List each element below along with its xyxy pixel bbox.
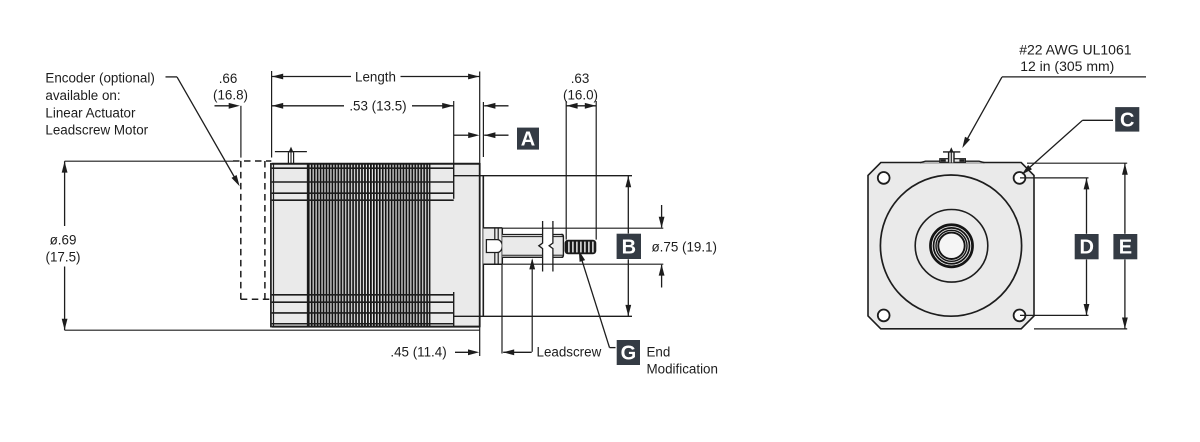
break lines [539, 221, 543, 272]
encoder leader line [166, 76, 178, 78]
body top edge [272, 163, 480, 165]
dim .45 (11.4) [479, 328, 481, 357]
svg-text:Leadscrew Motor: Leadscrew Motor [45, 123, 148, 138]
leadscrew label leader [531, 260, 533, 352]
svg-text:G: G [621, 343, 637, 365]
svg-text:Linear Actuator: Linear Actuator [45, 105, 136, 120]
wire terminal front view [940, 159, 966, 163]
svg-text:Length: Length [355, 69, 396, 84]
flag C leader [1083, 119, 1114, 121]
dim .53 (13.5) [272, 105, 344, 107]
flag G [617, 340, 640, 365]
boss circle [915, 210, 988, 283]
lamination fins [307, 164, 430, 327]
body horizontal lines top [272, 167, 454, 169]
svg-text:(16.8): (16.8) [213, 88, 248, 103]
svg-text:ø.69: ø.69 [50, 232, 77, 247]
svg-text:End: End [647, 344, 671, 359]
dim B vertical [627, 176, 629, 234]
dim E (flange size) [1027, 162, 1127, 164]
svg-text:B: B [622, 236, 636, 258]
boss slot (white notch) [486, 240, 502, 253]
dim Length [271, 71, 273, 158]
svg-text:.63: .63 [571, 71, 590, 86]
svg-text:12 in (305 mm): 12 in (305 mm) [1020, 58, 1114, 74]
motor body side view [272, 164, 480, 327]
svg-text:C: C [1120, 109, 1134, 131]
wire terminal on side view [275, 151, 307, 153]
svg-text:.66: .66 [219, 71, 238, 86]
svg-text:Encoder (optional): Encoder (optional) [45, 71, 154, 86]
svg-text:ø.75 (19.1): ø.75 (19.1) [652, 239, 718, 254]
flag D [1075, 234, 1099, 259]
dim o.75 arrows [661, 205, 663, 228]
svg-text:Leadscrew: Leadscrew [537, 344, 602, 359]
front plate line [482, 176, 484, 317]
flag C [1115, 107, 1139, 132]
wire exit plateau [920, 161, 985, 163]
svg-text:available on:: available on: [45, 88, 120, 103]
bolt holes [878, 172, 890, 184]
dim A small gap [484, 105, 508, 107]
svg-text:.53 (13.5): .53 (13.5) [349, 99, 406, 114]
end modification leader to flag G [580, 255, 609, 348]
motor body circle [880, 175, 1021, 316]
dim o.69 (17.5) vertical [64, 161, 66, 226]
front view flange square [868, 163, 1034, 329]
svg-text:(16.0): (16.0) [563, 88, 598, 103]
body right edge (mounting face) [479, 163, 481, 328]
svg-text:.45 (11.4): .45 (11.4) [390, 344, 446, 359]
flag B [617, 234, 641, 259]
svg-text:E: E [1119, 237, 1132, 259]
B extension lines (flange step) [454, 175, 632, 177]
flag A [517, 128, 539, 150]
dim B / o.75 extension lines [502, 227, 663, 229]
body bottom edge [272, 326, 480, 328]
leadscrew shaft [502, 234, 542, 257]
svg-text:#22 AWG UL1061: #22 AWG UL1061 [1019, 42, 1132, 58]
encoder dashed outline [233, 160, 271, 162]
pilot boss [483, 228, 502, 265]
dim D (bolt spacing) [1020, 177, 1089, 179]
body left edge [270, 163, 272, 327]
flag E [1113, 234, 1137, 259]
body horizontal lines bottom [272, 294, 454, 296]
svg-text:A: A [521, 129, 535, 151]
shaft rings [930, 225, 972, 267]
step vertical line rear of front cap [453, 164, 455, 199]
svg-text:Modification: Modification [647, 361, 718, 376]
svg-text:(17.5): (17.5) [46, 250, 81, 265]
threaded end (end modification knurl) [565, 240, 597, 254]
svg-text:D: D [1079, 237, 1093, 259]
